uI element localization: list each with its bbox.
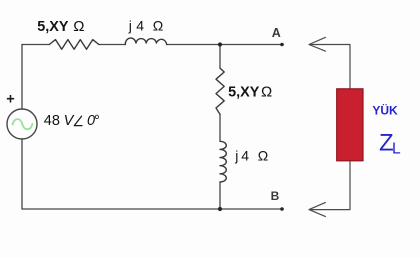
svg-text:L: L (392, 141, 401, 158)
svg-text:V: V (64, 113, 75, 129)
svg-text:A: A (272, 26, 281, 40)
svg-text:YÜK: YÜK (372, 103, 398, 118)
svg-text:+: + (6, 92, 14, 108)
svg-text:5,XYΩ: 5,XYΩ (37, 18, 84, 35)
svg-text:5,XYΩ: 5,XYΩ (228, 83, 272, 100)
svg-text:B: B (271, 189, 280, 203)
svg-text:°: ° (94, 113, 100, 129)
svg-text:48: 48 (44, 113, 60, 129)
